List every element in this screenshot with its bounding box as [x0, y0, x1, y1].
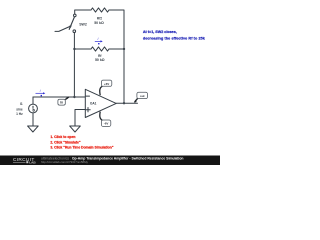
- wire top-left from switch up and right to Rf2: [75, 10, 91, 14]
- current probe i at Rf: [95, 37, 103, 45]
- ground under I1: [28, 126, 39, 132]
- wire switch bottom down to input node: [73, 32, 75, 97]
- svg-text:out: out: [140, 94, 145, 98]
- svg-text:+6V: +6V: [104, 82, 109, 86]
- resistor Rf2: [91, 8, 109, 12]
- svg-text:50 kΩ: 50 kΩ: [94, 21, 104, 25]
- current probe i at input: [36, 89, 46, 97]
- supply flag -6V: [100, 112, 111, 127]
- svg-text:SW2: SW2: [79, 23, 87, 27]
- resistor Rf: [91, 47, 109, 51]
- svg-text:1. Click to open: 1. Click to open: [50, 135, 75, 139]
- ground under + input: [70, 126, 81, 132]
- node junction left (Rf tee): [73, 48, 75, 50]
- node junction right (feedback tee): [123, 48, 125, 50]
- node junction output feedback: [123, 102, 125, 104]
- node junction input: [73, 96, 75, 98]
- svg-text:http://circuitlab.com/c/733z7n: http://circuitlab.com/c/733z7nm5f8dy: [41, 160, 88, 164]
- svg-text:I1: I1: [20, 102, 23, 106]
- op-amp OA1: [85, 89, 116, 117]
- switch SW2: [55, 14, 76, 32]
- supply flag +6V: [100, 80, 112, 95]
- svg-text:2. Click "Simulate": 2. Click "Simulate": [50, 140, 81, 144]
- svg-text:At t=1, SW2 closes,: At t=1, SW2 closes,: [143, 30, 177, 34]
- svg-text:50 kΩ: 50 kΩ: [95, 58, 105, 62]
- wire Rf right to right vertical: [109, 48, 124, 50]
- svg-text:decreasing the effective Rf to: decreasing the effective Rf to 25k: [143, 36, 206, 40]
- svg-text:-6V: -6V: [104, 122, 109, 126]
- svg-text:sine: sine: [16, 107, 23, 111]
- svg-text:LAB: LAB: [29, 161, 36, 165]
- node flag in: [58, 97, 69, 105]
- svg-text:in: in: [60, 101, 63, 105]
- node flag out: [134, 92, 148, 102]
- svg-text:3. Click "Run Time Domain Simu: 3. Click "Run Time Domain Simulation": [50, 145, 113, 149]
- wire op-amp + input to ground: [75, 110, 85, 127]
- footer logo CIRCUIT LAB: [13, 157, 36, 164]
- wire left junction to Rf: [74, 48, 91, 50]
- wire Rf2 right to top-right corner then down: [109, 10, 124, 103]
- wire op-amp output: [116, 102, 137, 104]
- wire input from current source to op-amp inverting input: [33, 96, 85, 98]
- svg-text:1 Hz: 1 Hz: [16, 112, 23, 116]
- current source I1: [29, 97, 38, 126]
- op-amp minus sign: [86, 95, 90, 97]
- footer bar: [0, 156, 220, 166]
- op-amp plus sign: [86, 108, 90, 112]
- svg-text:OA1: OA1: [90, 102, 97, 106]
